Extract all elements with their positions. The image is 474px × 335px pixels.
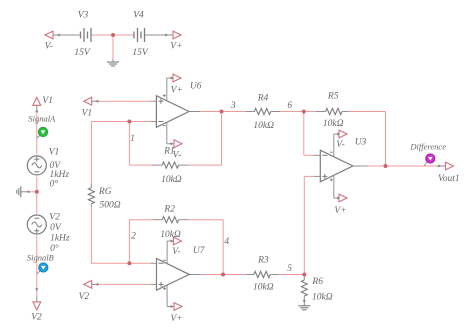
svg-text:V1: V1 [49,148,60,158]
svg-text:R2: R2 [163,204,175,214]
svg-text:10kΩ: 10kΩ [160,230,181,240]
svg-text:V-: V- [172,247,180,257]
svg-text:4: 4 [224,237,229,247]
svg-text:R6: R6 [311,277,323,287]
svg-text:Vout1: Vout1 [438,174,460,184]
svg-text:0°: 0° [50,179,59,190]
svg-text:U7: U7 [193,246,206,256]
svg-text:U6: U6 [190,81,202,91]
svg-text:1kHz: 1kHz [50,170,70,180]
svg-text:V+: V+ [170,42,182,52]
svg-text:10kΩ: 10kΩ [253,121,274,131]
svg-text:6: 6 [287,101,292,111]
svg-text:0V: 0V [50,223,62,233]
svg-text:SignalA: SignalA [28,113,56,123]
svg-text:V2: V2 [79,292,90,302]
svg-text:R3: R3 [257,256,269,266]
svg-text:2: 2 [131,232,136,242]
svg-text:Difference: Difference [409,142,446,152]
svg-text:15V: 15V [74,48,91,58]
svg-text:V+: V+ [170,314,182,324]
svg-text:V-: V- [336,140,344,150]
svg-text:V+: V+ [334,206,346,216]
svg-text:5: 5 [287,264,292,274]
svg-text:R5: R5 [327,92,339,102]
svg-text:500Ω: 500Ω [100,201,121,211]
svg-text:10kΩ: 10kΩ [161,175,182,185]
svg-text:U3: U3 [355,138,367,148]
svg-text:V2: V2 [31,312,42,322]
svg-text:V+: V+ [171,86,183,96]
svg-text:R4: R4 [257,93,269,103]
svg-text:V3: V3 [78,10,89,20]
svg-text:RG: RG [98,187,112,197]
svg-text:V-: V- [45,42,53,52]
svg-text:SignalB: SignalB [27,253,54,263]
svg-text:15V: 15V [132,48,149,58]
svg-text:V-: V- [173,150,181,160]
svg-text:V2: V2 [49,213,60,223]
svg-text:10kΩ: 10kΩ [253,283,274,293]
svg-text:V4: V4 [133,10,144,20]
svg-text:V1: V1 [42,96,53,106]
svg-text:1kHz: 1kHz [50,234,70,244]
svg-text:10kΩ: 10kΩ [312,293,333,303]
svg-text:3: 3 [230,101,236,111]
svg-text:1: 1 [130,134,135,144]
svg-text:10kΩ: 10kΩ [323,119,344,129]
svg-text:V1: V1 [82,109,93,119]
